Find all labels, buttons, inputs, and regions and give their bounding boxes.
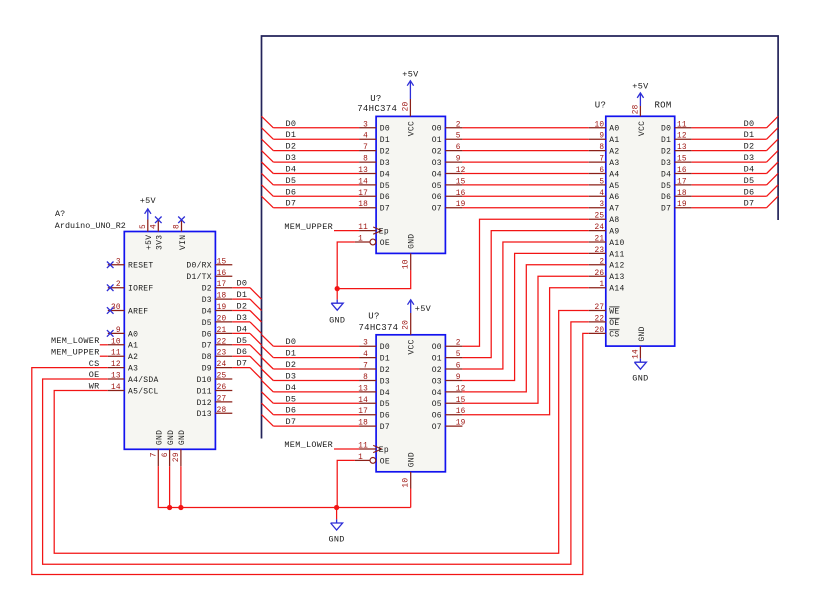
svg-text:D5: D5 [380, 400, 390, 409]
svg-text:U?: U? [368, 312, 379, 322]
svg-text:19: 19 [217, 304, 227, 312]
svg-text:D5: D5 [286, 394, 297, 404]
svg-text:OE: OE [380, 239, 390, 248]
svg-text:D1: D1 [286, 349, 297, 359]
svg-text:17: 17 [217, 281, 227, 289]
svg-text:D0: D0 [286, 337, 297, 347]
svg-text:24: 24 [595, 224, 605, 232]
svg-text:14: 14 [358, 397, 368, 405]
svg-text:10: 10 [111, 338, 121, 346]
svg-text:15: 15 [217, 258, 227, 266]
svg-text:D6: D6 [744, 187, 755, 197]
svg-text:D0: D0 [380, 343, 390, 352]
svg-text:20: 20 [595, 327, 605, 335]
svg-text:20: 20 [217, 315, 227, 323]
svg-text:A4/SDA: A4/SDA [128, 376, 159, 385]
svg-text:O3: O3 [432, 159, 442, 168]
svg-text:MEM_LOWER: MEM_LOWER [284, 440, 333, 450]
svg-text:10: 10 [402, 478, 410, 488]
svg-text:GND: GND [329, 316, 345, 326]
svg-text:16: 16 [217, 270, 227, 278]
svg-text:2: 2 [456, 340, 461, 348]
svg-text:17: 17 [358, 190, 368, 198]
svg-text:D8: D8 [202, 353, 212, 362]
svg-text:22: 22 [217, 338, 227, 346]
svg-text:A13: A13 [609, 273, 624, 282]
svg-text:7: 7 [363, 144, 368, 152]
svg-text:3: 3 [363, 340, 368, 348]
svg-text:D4: D4 [286, 165, 297, 175]
svg-text:25: 25 [595, 213, 605, 221]
svg-text:5: 5 [599, 178, 604, 186]
svg-text:GND: GND [632, 374, 648, 384]
svg-text:D7: D7 [202, 342, 212, 351]
svg-text:A2: A2 [128, 353, 138, 362]
svg-text:13: 13 [358, 385, 368, 393]
svg-text:OE: OE [609, 319, 619, 328]
svg-text:D5: D5 [237, 336, 248, 346]
svg-text:O3: O3 [432, 377, 442, 386]
svg-text:9: 9 [456, 374, 461, 382]
svg-text:O2: O2 [432, 366, 442, 375]
svg-text:U?: U? [595, 101, 606, 111]
svg-text:3: 3 [116, 258, 121, 266]
svg-text:6: 6 [456, 144, 461, 152]
svg-text:D4: D4 [744, 165, 755, 175]
svg-text:AREF: AREF [128, 307, 148, 316]
svg-text:D4: D4 [237, 324, 248, 334]
svg-text:26: 26 [217, 384, 227, 392]
svg-text:7: 7 [151, 452, 159, 457]
svg-text:11: 11 [677, 121, 687, 129]
svg-text:28: 28 [217, 407, 227, 415]
svg-text:A10: A10 [609, 239, 624, 248]
svg-text:+5V: +5V [402, 70, 419, 80]
svg-text:18: 18 [358, 201, 368, 209]
svg-text:17: 17 [358, 408, 368, 416]
svg-text:+5V: +5V [140, 196, 157, 206]
svg-text:D2: D2 [380, 148, 390, 157]
svg-text:4: 4 [363, 351, 368, 359]
svg-text:5: 5 [456, 133, 461, 141]
svg-text:VCC: VCC [408, 121, 417, 136]
svg-text:WE: WE [609, 307, 619, 316]
svg-text:29: 29 [173, 452, 181, 462]
svg-text:D7: D7 [380, 205, 390, 214]
svg-text:24: 24 [217, 361, 227, 369]
svg-text:12: 12 [677, 133, 687, 141]
svg-text:3: 3 [599, 201, 604, 209]
svg-text:28: 28 [633, 104, 641, 114]
svg-text:D6: D6 [202, 330, 212, 339]
svg-text:A0: A0 [609, 125, 619, 134]
svg-text:1: 1 [358, 236, 363, 244]
svg-text:26: 26 [595, 270, 605, 278]
svg-text:D2: D2 [286, 360, 297, 370]
svg-text:16: 16 [677, 167, 687, 175]
svg-text:10: 10 [595, 121, 605, 129]
svg-text:GND: GND [408, 234, 417, 249]
svg-text:7: 7 [599, 156, 604, 164]
svg-text:3: 3 [363, 121, 368, 129]
svg-text:13: 13 [677, 144, 687, 152]
svg-text:D7: D7 [286, 199, 297, 209]
svg-text:D6: D6 [237, 347, 248, 357]
svg-text:D4: D4 [202, 307, 212, 316]
svg-text:+5V: +5V [415, 304, 432, 314]
svg-text:23: 23 [595, 247, 605, 255]
svg-text:D3: D3 [237, 313, 248, 323]
svg-text:A1: A1 [128, 342, 138, 351]
svg-text:D0/RX: D0/RX [186, 262, 212, 271]
svg-text:D13: D13 [197, 410, 212, 419]
svg-text:MEM_UPPER: MEM_UPPER [284, 222, 333, 232]
svg-text:D4: D4 [380, 170, 390, 179]
svg-text:O4: O4 [432, 389, 442, 398]
svg-text:D4: D4 [286, 383, 297, 393]
svg-text:14: 14 [633, 349, 641, 359]
svg-text:A5/SCL: A5/SCL [128, 387, 159, 396]
svg-text:A14: A14 [609, 285, 624, 294]
svg-text:D4: D4 [380, 389, 390, 398]
svg-text:20: 20 [402, 102, 410, 112]
svg-text:A1: A1 [609, 136, 619, 145]
svg-text:O6: O6 [432, 193, 442, 202]
svg-text:O5: O5 [432, 182, 442, 191]
svg-text:D7: D7 [380, 423, 390, 432]
svg-text:D1: D1 [661, 136, 671, 145]
svg-text:A2: A2 [609, 148, 619, 157]
svg-text:D7: D7 [744, 199, 755, 209]
svg-text:4: 4 [151, 224, 159, 229]
svg-text:13: 13 [111, 373, 121, 381]
svg-text:OE: OE [380, 457, 390, 466]
svg-text:D6: D6 [661, 193, 671, 202]
svg-text:D3: D3 [661, 159, 671, 168]
svg-text:O7: O7 [432, 423, 442, 432]
svg-text:5: 5 [456, 351, 461, 359]
svg-text:25: 25 [217, 373, 227, 381]
svg-text:D7: D7 [237, 359, 248, 369]
svg-text:18: 18 [358, 420, 368, 428]
svg-text:D11: D11 [197, 387, 212, 396]
svg-text:D6: D6 [380, 193, 390, 202]
svg-text:Ep: Ep [379, 228, 389, 237]
svg-text:9: 9 [456, 156, 461, 164]
svg-text:A0: A0 [128, 330, 138, 339]
svg-text:19: 19 [677, 201, 687, 209]
svg-text:21: 21 [217, 327, 227, 335]
svg-text:D12: D12 [197, 399, 212, 408]
svg-text:D7: D7 [661, 205, 671, 214]
svg-text:23: 23 [217, 350, 227, 358]
svg-text:A5: A5 [609, 182, 619, 191]
svg-text:13: 13 [358, 167, 368, 175]
svg-text:Arduino_UNO_R2: Arduino_UNO_R2 [55, 221, 126, 231]
svg-text:A6: A6 [609, 193, 619, 202]
svg-text:27: 27 [217, 395, 227, 403]
svg-text:1: 1 [358, 454, 363, 462]
svg-text:D0: D0 [380, 125, 390, 134]
svg-text:74HC374: 74HC374 [357, 104, 397, 114]
svg-text:O4: O4 [432, 170, 442, 179]
svg-text:D2: D2 [744, 142, 755, 152]
svg-text:8: 8 [174, 224, 182, 229]
svg-text:A3: A3 [128, 365, 138, 374]
svg-text:O1: O1 [432, 136, 442, 145]
svg-text:GND: GND [638, 326, 647, 341]
svg-text:22: 22 [595, 315, 605, 323]
svg-text:74HC374: 74HC374 [358, 323, 398, 333]
svg-text:D2: D2 [286, 142, 297, 152]
svg-text:GND: GND [156, 430, 165, 445]
svg-text:D3: D3 [744, 153, 755, 163]
svg-text:D1: D1 [744, 130, 755, 140]
svg-text:D3: D3 [380, 159, 390, 168]
svg-text:A3: A3 [609, 159, 619, 168]
svg-text:D6: D6 [286, 187, 297, 197]
svg-text:D3: D3 [380, 377, 390, 386]
svg-text:Ep: Ep [379, 446, 389, 455]
svg-text:D0: D0 [286, 119, 297, 129]
svg-text:O7: O7 [432, 205, 442, 214]
svg-text:11: 11 [111, 350, 121, 358]
svg-text:2: 2 [116, 281, 121, 289]
svg-text:10: 10 [402, 259, 410, 269]
svg-text:D2: D2 [202, 285, 212, 294]
svg-text:18: 18 [217, 293, 227, 301]
svg-text:D0: D0 [237, 279, 248, 289]
svg-text:VCC: VCC [408, 339, 417, 354]
svg-text:O0: O0 [432, 343, 442, 352]
svg-text:A9: A9 [609, 228, 619, 237]
svg-text:D5: D5 [661, 182, 671, 191]
svg-text:D3: D3 [286, 153, 297, 163]
svg-text:D5: D5 [202, 319, 212, 328]
svg-text:D10: D10 [197, 376, 212, 385]
svg-text:D9: D9 [202, 365, 212, 374]
svg-text:+5V: +5V [632, 81, 649, 91]
svg-text:D1: D1 [380, 136, 390, 145]
svg-text:GND: GND [328, 535, 344, 545]
svg-text:A?: A? [55, 209, 65, 219]
svg-text:21: 21 [595, 236, 605, 244]
svg-text:D7: D7 [286, 417, 297, 427]
svg-text:6: 6 [456, 363, 461, 371]
svg-text:MEM_UPPER: MEM_UPPER [51, 347, 100, 357]
svg-text:D6: D6 [380, 412, 390, 421]
svg-text:8: 8 [363, 374, 368, 382]
svg-text:18: 18 [677, 190, 687, 198]
svg-text:VIN: VIN [179, 235, 188, 250]
svg-text:O5: O5 [432, 400, 442, 409]
svg-text:D3: D3 [202, 296, 212, 305]
svg-text:D1/TX: D1/TX [186, 273, 212, 282]
svg-text:9: 9 [599, 133, 604, 141]
svg-text:D1: D1 [237, 290, 248, 300]
svg-text:+5V: +5V [145, 235, 154, 250]
svg-text:27: 27 [595, 304, 605, 312]
svg-text:IOREF: IOREF [128, 285, 154, 294]
svg-text:6: 6 [599, 167, 604, 175]
svg-text:D0: D0 [744, 119, 755, 129]
svg-text:CS: CS [609, 330, 619, 339]
svg-text:D1: D1 [380, 355, 390, 364]
svg-text:11: 11 [358, 224, 368, 232]
svg-text:3V3: 3V3 [156, 235, 165, 250]
svg-text:4: 4 [363, 133, 368, 141]
svg-text:O1: O1 [432, 355, 442, 364]
svg-text:ROM: ROM [654, 101, 671, 111]
svg-text:8: 8 [363, 156, 368, 164]
svg-text:9: 9 [116, 327, 121, 335]
svg-text:A4: A4 [609, 170, 619, 179]
svg-text:D1: D1 [286, 130, 297, 140]
svg-text:2: 2 [599, 258, 604, 266]
svg-text:U?: U? [370, 94, 381, 104]
svg-text:5: 5 [140, 224, 148, 229]
svg-text:A12: A12 [609, 262, 624, 271]
svg-text:O6: O6 [432, 412, 442, 421]
svg-text:D5: D5 [744, 176, 755, 186]
svg-text:A8: A8 [609, 216, 619, 225]
svg-text:O0: O0 [432, 125, 442, 134]
svg-text:D2: D2 [661, 148, 671, 157]
svg-text:6: 6 [162, 452, 170, 457]
svg-text:7: 7 [363, 363, 368, 371]
svg-text:A11: A11 [609, 250, 624, 259]
svg-text:12: 12 [111, 361, 121, 369]
svg-text:D0: D0 [661, 125, 671, 134]
svg-text:19: 19 [456, 420, 466, 428]
svg-text:2: 2 [456, 121, 461, 129]
svg-text:D5: D5 [286, 176, 297, 186]
svg-text:GND: GND [408, 452, 417, 467]
svg-text:D4: D4 [661, 170, 671, 179]
svg-text:A7: A7 [609, 205, 619, 214]
svg-text:D2: D2 [380, 366, 390, 375]
svg-text:14: 14 [111, 384, 121, 392]
svg-text:RESET: RESET [128, 262, 154, 271]
svg-text:14: 14 [358, 178, 368, 186]
svg-text:D2: D2 [237, 302, 248, 312]
svg-text:D6: D6 [286, 406, 297, 416]
svg-text:8: 8 [599, 144, 604, 152]
svg-text:1: 1 [599, 281, 604, 289]
svg-text:D5: D5 [380, 182, 390, 191]
svg-text:17: 17 [677, 178, 687, 186]
svg-text:11: 11 [358, 443, 368, 451]
svg-text:D3: D3 [286, 372, 297, 382]
svg-text:VCC: VCC [638, 121, 647, 136]
svg-text:15: 15 [677, 156, 687, 164]
svg-text:MEM_LOWER: MEM_LOWER [51, 336, 100, 346]
svg-text:GND: GND [178, 430, 187, 445]
svg-text:GND: GND [167, 430, 176, 445]
svg-text:4: 4 [599, 190, 604, 198]
svg-text:O2: O2 [432, 148, 442, 157]
svg-text:20: 20 [402, 320, 410, 330]
